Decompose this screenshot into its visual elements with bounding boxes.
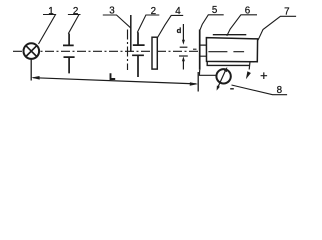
slit d lower arrow [182,61,184,70]
dimension L right extension [197,72,199,92]
leader 2b [137,15,159,33]
svg-text:d: d [177,26,182,35]
svg-text:6: 6 [245,5,251,16]
leader 6 [227,15,257,36]
svg-text:1: 1 [48,6,53,17]
plus sign [261,72,268,79]
element 3 plane (vertical dash-dot) [127,30,129,71]
leader 8 [232,85,288,95]
slit d upper arrow [182,24,184,41]
svg-text:2: 2 [73,6,78,17]
leader 1 [39,15,56,45]
leader 7 [258,16,296,40]
photocell box 6 body [206,38,257,62]
slit d lower tick [179,55,188,57]
svg-text:2: 2 [151,6,156,17]
leader 2a [68,15,81,34]
wire: element5 to meter [199,70,216,76]
svg-text:7: 7 [284,7,289,18]
leader 5 [200,15,224,30]
svg-text:3: 3 [109,6,115,17]
element 3 pointer line [130,15,132,52]
svg-text:5: 5 [212,5,218,16]
slit d upper tick [180,46,188,48]
wire: box right terminal with plug arrow [248,62,251,70]
element 5 plate [199,30,201,70]
leader 3 [103,15,131,28]
element 4 plate (narrow rectangle) [152,37,157,69]
wire: box left terminal down [207,61,250,65]
dimension L line [33,78,196,84]
diaphragm 2b lower [132,55,144,77]
svg-text:4: 4 [175,6,181,17]
meter needle double arrow [218,70,226,87]
lamp cross [26,46,37,57]
diaphragm 2b upper [133,32,145,45]
dimension L left extension (below lamp) [30,60,32,81]
stray axis dash [193,48,197,50]
box mid line [208,51,244,53]
optical axis (dash-dot centerline) [13,50,199,52]
diaphragm 2a upper [63,34,74,46]
meter 8 (galvanometer) circle [216,69,230,83]
lamp 1 (source) circle [24,43,40,59]
diaphragm 2a lower [64,57,75,73]
leader 4 [158,15,184,37]
svg-text:8: 8 [277,85,283,96]
minus sign [230,88,234,90]
label L glyph [111,73,116,79]
window nub between plate and box [200,45,206,56]
box lid line [213,34,247,36]
